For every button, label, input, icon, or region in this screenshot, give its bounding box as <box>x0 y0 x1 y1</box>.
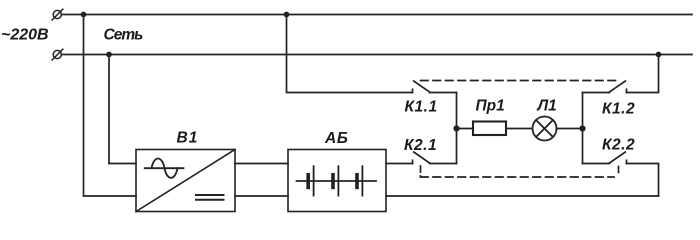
svg-text:К1.1: К1.1 <box>405 99 438 116</box>
switch K1.1 <box>413 81 457 93</box>
symbol AC sine inside B1 <box>145 159 184 178</box>
wire: left drop from top line to B1 lower input <box>84 15 137 197</box>
svg-text:К1.2: К1.2 <box>602 101 635 118</box>
battery AB (storage battery box) <box>288 150 386 212</box>
mechanical link stub under K2.1 <box>420 166 422 177</box>
wire: left riser joining K1.1 and K2.1 <box>456 93 458 164</box>
terminal X2 (neutral input) <box>52 49 63 60</box>
node A (top wire / left drop junction) <box>81 12 87 18</box>
terminal X1 (phase input) <box>52 9 63 20</box>
wire: drop from second line to B1 upper input <box>109 55 136 164</box>
wire: B1 to AB lower link <box>235 195 288 197</box>
wire: bottom return line AB to right riser <box>386 195 659 197</box>
wire: fuse to lamp <box>506 128 533 130</box>
symbol DC equals inside B1 <box>196 195 224 200</box>
svg-text:~220В: ~220В <box>1 27 49 44</box>
wire: right riser joining K1.2 and K2.2 <box>582 93 584 164</box>
mechanical link dashed top (K1.1–K1.2) <box>421 80 617 82</box>
svg-text:АБ: АБ <box>324 130 349 147</box>
node F (lamp branch right junction) <box>579 125 585 131</box>
svg-text:К2.1: К2.1 <box>404 137 437 154</box>
wire: second mains line <box>62 54 693 56</box>
svg-text:Сеть: Сеть <box>104 27 144 44</box>
symbol battery cells inside AB <box>297 166 377 195</box>
wire: drop from top line to switch K1.1 <box>287 15 413 93</box>
node B (second wire / drop to B1 junction) <box>106 52 112 58</box>
switch K2.2 <box>583 152 627 164</box>
mechanical link dashed bottom (K2.1–K2.2) <box>421 176 615 178</box>
wire: drop from second line to switch K1.2 <box>627 55 659 93</box>
lamp Л1 <box>533 117 557 141</box>
fuse Пр1 <box>473 122 506 136</box>
converter B1 (rectifier/inverter box) <box>136 150 235 212</box>
node C (top wire / K1.1 branch junction) <box>284 12 290 18</box>
switch K2.1 <box>413 152 457 164</box>
svg-text:К2.2: К2.2 <box>602 137 635 154</box>
wire: AB to switch K2.1 <box>386 163 413 165</box>
wire: K2.2 to bottom return line <box>627 164 659 197</box>
node E (lamp branch left junction) <box>453 125 459 131</box>
svg-text:Пр1: Пр1 <box>476 98 505 115</box>
wire: junction E to fuse <box>457 128 474 130</box>
mechanical link stub under K2.2 <box>618 167 620 177</box>
svg-text:В1: В1 <box>177 130 199 147</box>
wire: B1 to AB upper link <box>235 163 288 165</box>
wire: top mains line <box>62 14 693 16</box>
node D (second wire / K1.2 branch junction) <box>656 52 662 58</box>
wire: lamp to junction F <box>557 128 583 130</box>
svg-text:Л1: Л1 <box>537 98 557 115</box>
switch K1.2 <box>583 81 627 93</box>
